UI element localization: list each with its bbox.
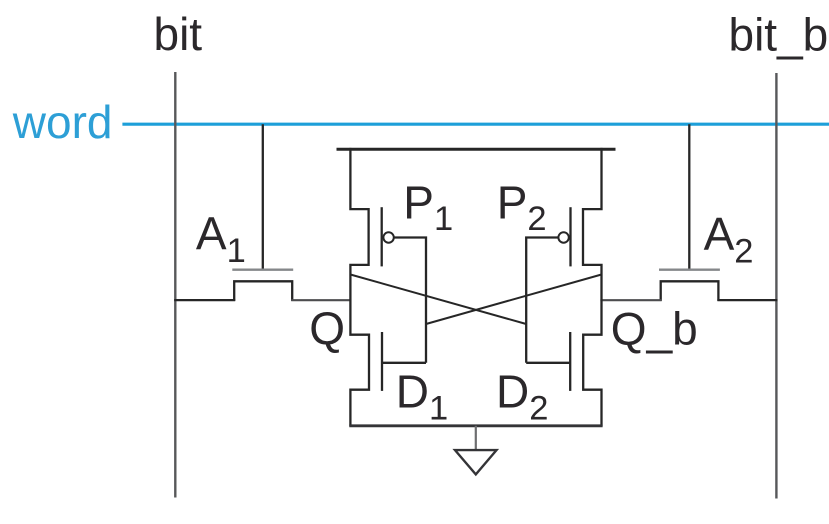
svg-text:Q: Q (309, 302, 345, 354)
svg-text:word: word (12, 96, 113, 148)
svg-text:bit: bit (154, 8, 203, 60)
svg-text:bit_b: bit_b (729, 8, 829, 60)
svg-text:Q_b: Q_b (611, 302, 698, 354)
